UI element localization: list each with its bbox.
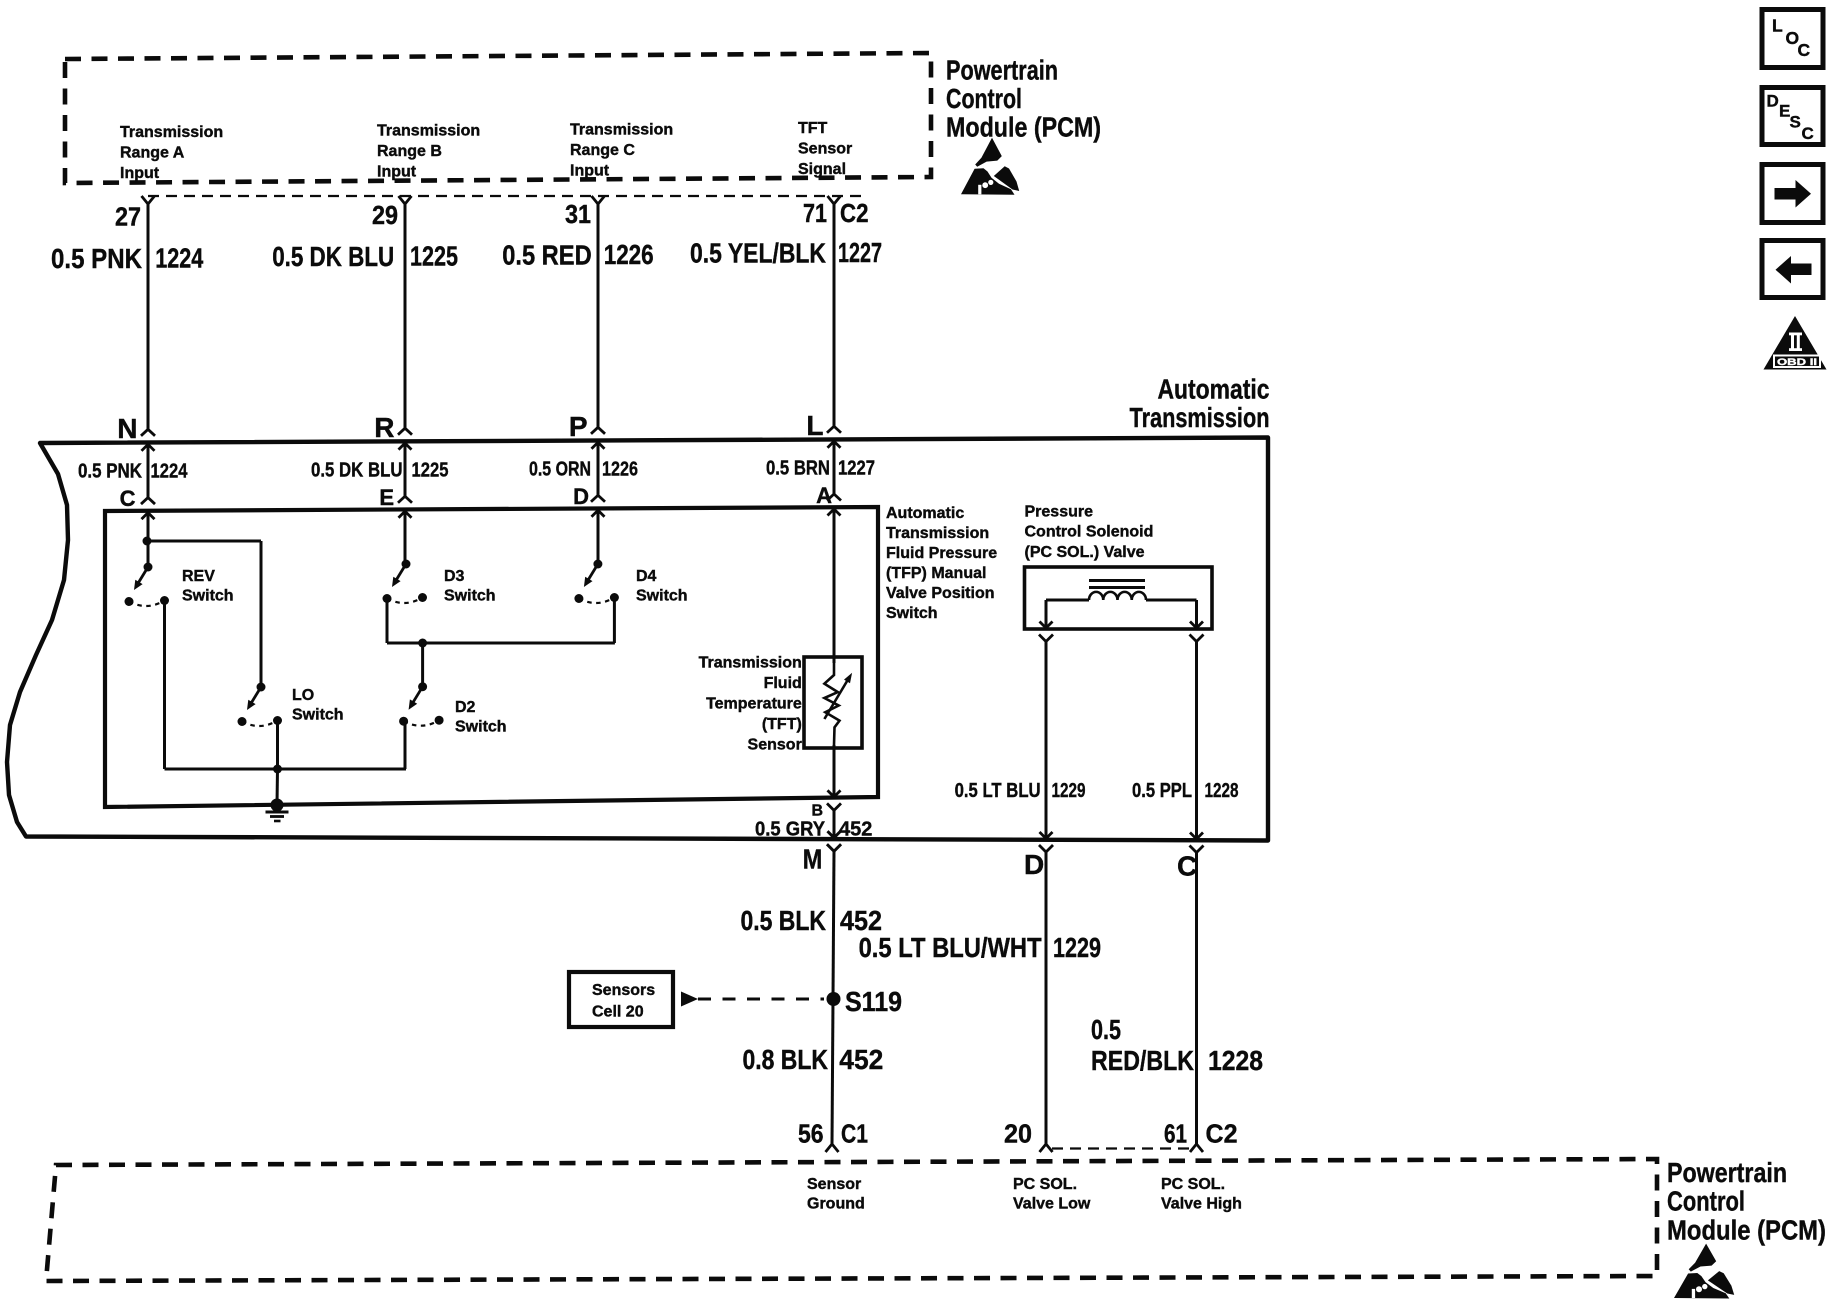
svg-text:Temperature: Temperature [706,696,802,713]
svg-text:(TFP) Manual: (TFP) Manual [886,565,986,582]
svg-text:Cell 20: Cell 20 [592,1004,644,1021]
svg-text:0.5: 0.5 [1091,1014,1121,1045]
svg-text:Transmission: Transmission [570,121,673,138]
svg-text:29: 29 [372,200,398,230]
svg-text:0.5 GRY: 0.5 GRY [755,819,826,841]
svg-text:Valve High: Valve High [1161,1196,1242,1213]
svg-text:Fluid Pressure: Fluid Pressure [886,545,997,562]
svg-text:D: D [573,484,589,509]
svg-text:1229: 1229 [1053,932,1101,963]
svg-text:Powertrain: Powertrain [946,55,1058,86]
svg-text:PC SOL.: PC SOL. [1161,1176,1225,1193]
svg-text:Input: Input [570,162,610,179]
svg-text:1226: 1226 [604,239,654,270]
svg-text:Switch: Switch [636,588,688,605]
svg-text:Valve Low: Valve Low [1013,1196,1091,1213]
svg-text:C1: C1 [841,1119,868,1149]
svg-text:REV: REV [182,568,215,585]
svg-text:61: 61 [1164,1119,1187,1149]
svg-text:Automatic: Automatic [886,505,964,522]
svg-text:452: 452 [839,1044,883,1075]
svg-text:M: M [803,843,823,874]
svg-text:(PC SOL.) Valve: (PC SOL.) Valve [1025,544,1145,561]
svg-text:0.8 BLK: 0.8 BLK [743,1044,829,1075]
svg-text:Control: Control [946,83,1022,114]
svg-text:0.5 PNK: 0.5 PNK [51,243,142,274]
svg-text:Range B: Range B [377,143,442,160]
svg-text:P: P [569,411,588,442]
svg-text:S119: S119 [845,986,902,1017]
svg-text:Transmission: Transmission [699,655,802,672]
svg-text:1224: 1224 [155,243,203,274]
svg-text:Control Solenoid: Control Solenoid [1025,524,1154,541]
svg-text:A: A [816,483,832,508]
svg-text:Automatic: Automatic [1158,374,1270,405]
svg-text:0.5 BLK: 0.5 BLK [741,905,827,936]
svg-text:N: N [117,413,137,444]
svg-text:C: C [120,486,136,511]
svg-text:71: 71 [803,198,827,228]
svg-text:0.5 BRN: 0.5 BRN [766,458,830,480]
svg-text:OBD II: OBD II [1777,357,1817,368]
svg-text:Pressure: Pressure [1025,504,1094,521]
svg-text:C: C [1798,40,1811,60]
svg-text:Range C: Range C [570,142,635,159]
svg-text:Input: Input [377,163,417,180]
svg-text:1227: 1227 [838,237,882,268]
svg-text:(TFT): (TFT) [762,716,802,733]
svg-text:Input: Input [120,165,160,182]
svg-text:0.5 LT BLU/WHT: 0.5 LT BLU/WHT [859,932,1042,963]
svg-text:1225: 1225 [412,460,449,482]
svg-text:Ground: Ground [807,1196,865,1213]
svg-text:27: 27 [115,202,141,232]
svg-text:Range A: Range A [120,145,185,162]
svg-text:Signal: Signal [798,161,846,178]
svg-text:1224: 1224 [151,461,189,483]
svg-text:1227: 1227 [838,458,875,480]
svg-text:31: 31 [565,199,591,229]
svg-text:RED/BLK: RED/BLK [1091,1045,1194,1076]
svg-text:0.5 RED: 0.5 RED [502,239,592,270]
svg-text:Switch: Switch [455,719,507,736]
svg-text:Valve Position: Valve Position [886,585,994,602]
svg-text:Sensor: Sensor [748,737,802,754]
svg-text:PC SOL.: PC SOL. [1013,1176,1077,1193]
svg-text:Transmission: Transmission [1130,402,1270,433]
svg-text:1228: 1228 [1208,1045,1263,1076]
svg-text:S: S [1790,113,1801,132]
svg-text:Transmission: Transmission [886,525,989,542]
svg-text:E: E [379,485,394,510]
svg-text:0.5 ORN: 0.5 ORN [529,459,591,481]
svg-text:Sensor: Sensor [807,1176,861,1193]
svg-text:C2: C2 [840,198,869,228]
svg-text:1226: 1226 [602,459,638,481]
svg-text:Module (PCM): Module (PCM) [946,112,1101,143]
svg-text:C2: C2 [1206,1119,1238,1149]
svg-text:Transmission: Transmission [120,124,223,141]
svg-text:LO: LO [292,687,314,704]
svg-text:Switch: Switch [444,588,496,605]
svg-text:1228: 1228 [1205,780,1239,802]
svg-text:0.5 DK BLU: 0.5 DK BLU [311,460,403,482]
svg-text:Switch: Switch [292,707,344,724]
svg-text:L: L [806,410,823,441]
svg-text:0.5 PPL: 0.5 PPL [1132,780,1192,802]
svg-text:Switch: Switch [182,588,234,605]
svg-text:20: 20 [1004,1119,1032,1149]
svg-text:C: C [1802,124,1814,143]
svg-text:C: C [1177,851,1197,882]
svg-text:0.5 PNK: 0.5 PNK [78,461,142,483]
svg-text:L: L [1772,16,1783,36]
svg-text:Sensor: Sensor [798,140,852,157]
svg-text:1229: 1229 [1052,780,1086,802]
svg-text:Sensors: Sensors [592,982,655,999]
svg-text:0.5 LT BLU: 0.5 LT BLU [955,780,1041,802]
svg-text:Switch: Switch [886,605,938,622]
svg-text:D2: D2 [455,699,476,716]
svg-text:1225: 1225 [410,240,458,271]
svg-text:0.5 DK BLU: 0.5 DK BLU [272,241,394,272]
svg-text:Fluid: Fluid [764,675,802,692]
svg-text:56: 56 [798,1119,824,1149]
svg-text:R: R [374,412,394,443]
svg-text:D: D [1767,92,1779,111]
svg-text:Control: Control [1667,1186,1745,1217]
svg-text:D4: D4 [636,568,657,585]
svg-text:Transmission: Transmission [377,122,480,139]
svg-text:452: 452 [839,819,872,841]
svg-text:D3: D3 [444,568,465,585]
svg-text:TFT: TFT [798,120,828,137]
svg-text:D: D [1024,849,1044,880]
svg-text:0.5 YEL/BLK: 0.5 YEL/BLK [690,238,826,269]
svg-text:Powertrain: Powertrain [1667,1157,1787,1188]
svg-text:B: B [811,803,823,820]
svg-text:Module (PCM): Module (PCM) [1667,1215,1826,1246]
